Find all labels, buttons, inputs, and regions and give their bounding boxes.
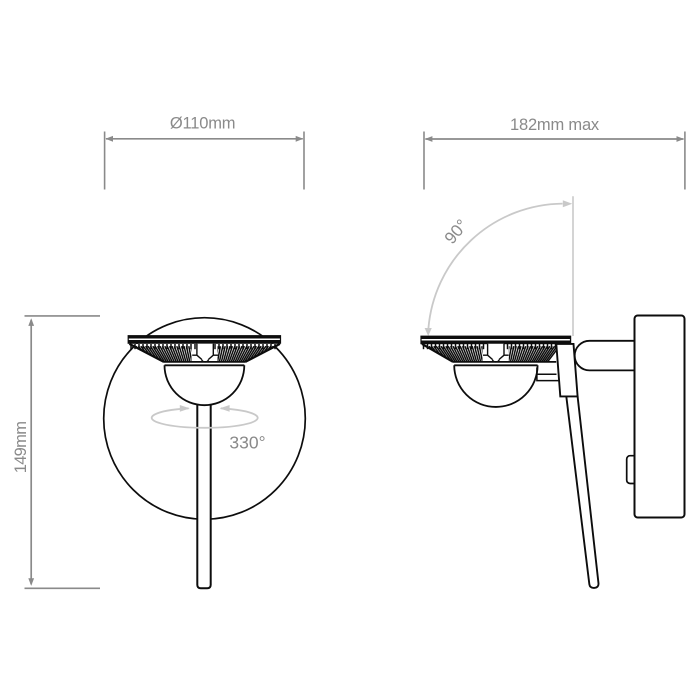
front heatsink body [129,344,280,362]
pivot block [556,344,577,397]
dimension 182mm max extension lines [424,132,685,190]
330-degree rotation arc [152,408,258,428]
dimension Ø110mm extension lines [105,132,304,190]
dimension 149mm arrow line [28,318,34,586]
side heatsink left edge [422,344,453,362]
front heatsink fins left [124,346,194,362]
side glass dome [454,365,537,407]
svg-text:Ø110mm: Ø110mm [170,115,235,133]
wall arm (horizontal) [575,341,635,371]
330-degree arrow left [180,405,190,412]
side heatsink body [422,344,557,362]
front heatsink left edge [129,344,163,362]
wall plate [635,316,685,518]
svg-text:182mm max: 182mm max [510,116,600,134]
side heatsink fins left [417,346,485,362]
side yoke arm [537,368,561,381]
front glass dome [165,365,245,405]
front heatsink right edge [245,344,280,362]
dimension 182mm max arrow line [425,136,684,142]
front heatsink bottom edge [164,361,246,363]
front view ring (circle) [104,318,306,520]
dimension Ø110mm arrow line [105,136,303,142]
side heatsink bottom edge [453,361,557,363]
front top plate [128,335,282,344]
front heatsink fin ticks [131,344,275,349]
svg-text:149mm: 149mm [12,422,30,474]
dimension 149mm extension lines [25,316,101,588]
90-degree reference line [572,196,574,336]
90-degree swing arc [428,204,562,329]
front lamp holder [197,344,213,360]
side top plate [420,336,571,345]
front view stem [197,396,210,588]
switch knob [627,456,639,484]
svg-text:330°: 330° [229,433,265,453]
side heatsink fins right [507,346,560,362]
90-degree arc arrow top [563,200,573,207]
side heatsink fin ticks [424,344,556,349]
tilted rod [566,396,598,588]
side lamp holder [488,344,504,360]
330-degree arrow right [220,405,230,412]
90-degree arc arrow bottom [425,328,432,336]
front heatsink fins right [216,346,283,362]
